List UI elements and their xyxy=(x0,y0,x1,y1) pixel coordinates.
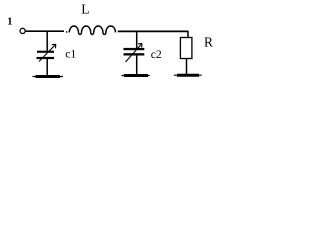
inductor L coil xyxy=(69,26,115,35)
capacitor c2 trimmer arrow xyxy=(126,44,143,63)
wire c2 lower lead xyxy=(136,56,138,75)
capacitor c1 top plate xyxy=(37,51,54,53)
wire from inductor to resistor bend xyxy=(118,30,189,32)
svg-text:R: R xyxy=(204,35,213,50)
svg-text:c2: c2 xyxy=(151,48,162,61)
capacitor c2 top plate xyxy=(124,48,145,50)
ground bar under c1 xyxy=(33,76,64,78)
ground bar under c2 xyxy=(122,75,150,77)
capacitor c1 trimmer arrow xyxy=(39,44,56,61)
wire c1 junction vertical xyxy=(46,31,48,51)
svg-text:1: 1 xyxy=(7,17,12,28)
capacitor c2 bottom plate xyxy=(124,53,145,55)
wire resistor lower lead xyxy=(186,59,188,75)
svg-text:L: L xyxy=(81,2,89,17)
resistor R body xyxy=(180,38,192,59)
port P1 terminal circle xyxy=(20,28,25,33)
ground bar under R xyxy=(174,74,202,76)
wire from port to inductor xyxy=(25,30,64,32)
node junction dot at inductor left lead xyxy=(66,31,68,32)
wire c1 lower lead xyxy=(46,59,48,76)
svg-text:c1: c1 xyxy=(65,48,76,61)
wire bend down to resistor xyxy=(187,31,189,38)
capacitor c1 bottom plate xyxy=(37,57,55,59)
wire c2 junction vertical xyxy=(136,31,138,48)
